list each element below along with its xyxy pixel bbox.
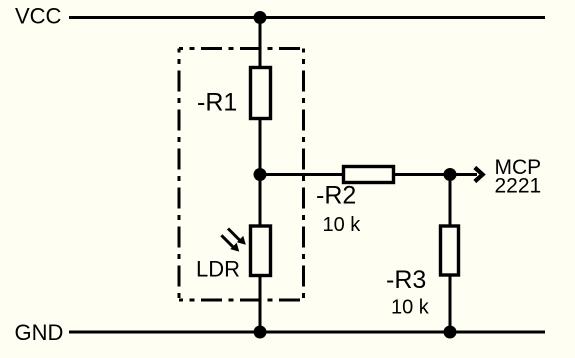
svg-text:2221: 2221 bbox=[495, 175, 542, 198]
svg-text:LDR: LDR bbox=[196, 257, 240, 282]
svg-text:VCC: VCC bbox=[15, 4, 62, 29]
svg-text:-R1: -R1 bbox=[197, 89, 237, 117]
svg-text:GND: GND bbox=[15, 320, 64, 345]
svg-text:-R3: -R3 bbox=[386, 266, 426, 294]
svg-text:10 k: 10 k bbox=[391, 297, 430, 319]
svg-text:10 k: 10 k bbox=[323, 214, 362, 236]
svg-text:-R2: -R2 bbox=[316, 182, 356, 210]
